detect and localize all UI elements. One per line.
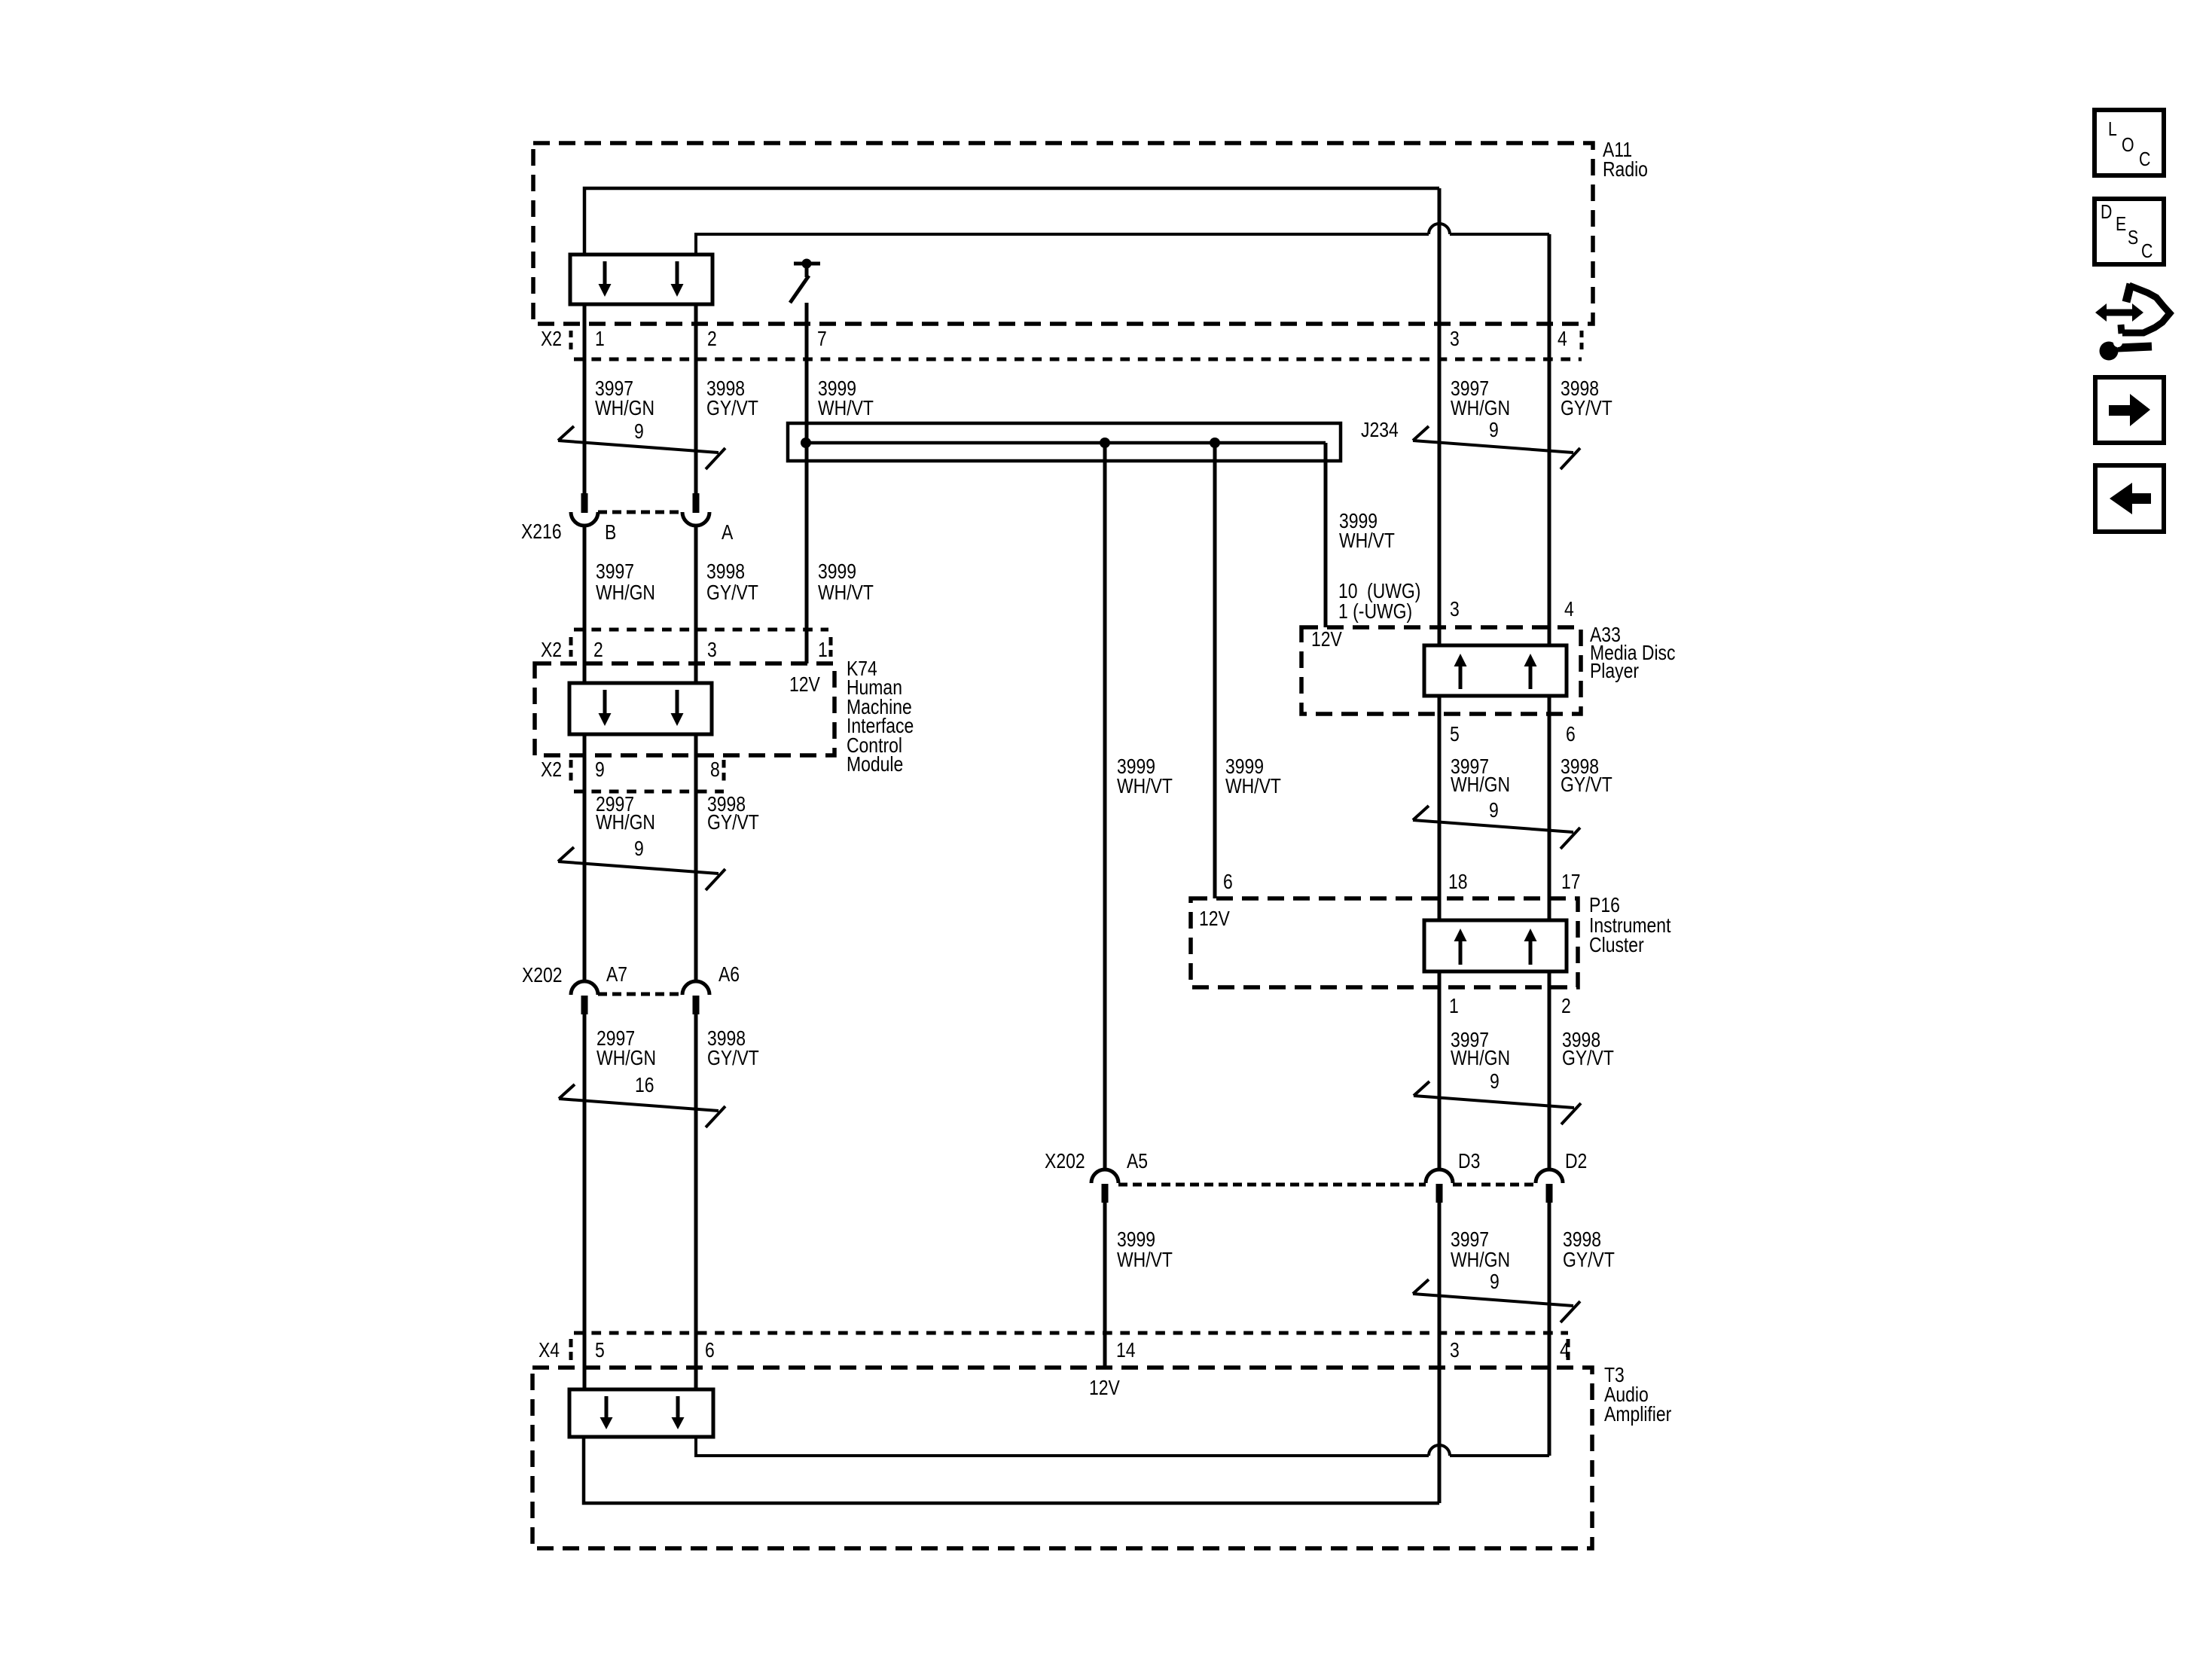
svg-text:WH/VT: WH/VT: [1117, 1249, 1173, 1272]
wire W3: D3 to T3 interior: [1438, 1203, 1442, 1503]
X202 D3 arc: [1426, 1170, 1453, 1183]
svg-text:WH/GN: WH/GN: [1451, 1249, 1510, 1272]
svg-text:A7: A7: [606, 963, 627, 987]
svg-text:WH/GN: WH/GN: [596, 811, 655, 834]
P16 connector arrow left: [1459, 941, 1463, 965]
J234 bus line: [806, 441, 1326, 445]
svg-text:3999: 3999: [818, 560, 856, 584]
P16 connector box: [1424, 920, 1567, 971]
P16 connector arrow right: [1529, 941, 1533, 965]
wire W4: radio to A33: [1548, 234, 1551, 646]
svg-text:GY/VT: GY/VT: [1563, 1249, 1615, 1272]
svg-text:Player: Player: [1590, 660, 1639, 683]
twisted pair symbol 1 (radio-X216): [558, 426, 725, 469]
T3 interior wire W2 return left part: [696, 1437, 1429, 1456]
X216 B arc: [571, 512, 598, 526]
svg-text:1: 1: [1449, 995, 1459, 1018]
svg-text:9: 9: [634, 420, 644, 444]
X202 A7 pin bar: [581, 996, 588, 1014]
svg-text:J234: J234: [1361, 419, 1399, 442]
svg-text:X2: X2: [541, 639, 562, 662]
hop of W2 return over W3: [1429, 1445, 1450, 1456]
svg-text:C: C: [2139, 148, 2150, 171]
svg-text:E: E: [2116, 213, 2126, 236]
K74 connector arrow right: [676, 690, 679, 714]
A11 Radio dashed box: [533, 143, 1593, 324]
svg-text:WH/GN: WH/GN: [1451, 397, 1510, 420]
svg-text:GY/VT: GY/VT: [706, 397, 758, 420]
svg-text:X216: X216: [521, 520, 562, 544]
svg-text:WH/GN: WH/GN: [1451, 1047, 1510, 1070]
svg-text:S: S: [2128, 227, 2138, 249]
svg-text:2: 2: [1561, 995, 1571, 1018]
wire W4: D2 to T3 interior: [1548, 1203, 1551, 1456]
svg-text:Cluster: Cluster: [1589, 934, 1644, 957]
wire W3: A33 to P16: [1438, 696, 1442, 920]
schematic navigation icon (route arrow + wrench): [2121, 284, 2170, 334]
K74 bottom pin row left separator: [569, 760, 573, 784]
junction dot WP6: [1210, 438, 1220, 448]
svg-text:1 (-UWG): 1 (-UWG): [1338, 600, 1412, 624]
svg-text:5: 5: [1450, 723, 1460, 746]
K74 top pin row dotted line: [574, 628, 828, 632]
svg-text:Module: Module: [847, 753, 903, 776]
A33 connector arrow left: [1459, 666, 1463, 689]
X202 left dashed link: [598, 993, 682, 996]
X202 A5 arc: [1091, 1170, 1118, 1183]
svg-text:12V: 12V: [789, 673, 820, 697]
svg-text:X202: X202: [1045, 1150, 1085, 1173]
svg-text:14: 14: [1116, 1339, 1136, 1362]
svg-text:GY/VT: GY/VT: [706, 581, 758, 605]
A33 connector arrow right: [1529, 666, 1533, 689]
T3 connector arrow right: [676, 1396, 680, 1418]
svg-text:16: 16: [635, 1074, 654, 1097]
svg-text:L: L: [2108, 118, 2117, 141]
svg-text:2: 2: [593, 639, 603, 662]
J234 splice pack box: [788, 423, 1341, 461]
svg-text:4: 4: [1560, 1339, 1570, 1362]
wire W1: X216 to K74: [583, 526, 587, 685]
X202 A6 arc: [682, 981, 709, 995]
svg-text:Radio: Radio: [1603, 158, 1648, 181]
X202 A5 pin bar: [1102, 1184, 1109, 1203]
svg-text:3: 3: [707, 639, 717, 662]
svg-text:3997: 3997: [596, 560, 634, 584]
twisted pair symbol 7 (X202-T3 right): [1413, 1279, 1580, 1322]
svg-text:WH/VT: WH/VT: [1225, 775, 1281, 798]
P16 dashed box: [1191, 898, 1578, 987]
radio pin row right separator: [1580, 331, 1584, 352]
K74 connector box: [569, 683, 712, 734]
svg-text:WH/VT: WH/VT: [818, 581, 874, 605]
X216 A arc: [682, 512, 709, 526]
svg-text:WH/GN: WH/GN: [596, 581, 655, 605]
T3 connector arrow left: [605, 1396, 609, 1418]
twisted pair symbol 6 (P16-X202): [1414, 1081, 1581, 1124]
wire W2 top loop left part: [696, 234, 1429, 255]
svg-text:Amplifier: Amplifier: [1604, 1403, 1672, 1426]
svg-text:WH/GN: WH/GN: [595, 397, 654, 420]
wrench: [2100, 342, 2119, 361]
wire 3999 from switch down to K74: [805, 303, 809, 663]
svg-text:6: 6: [1566, 723, 1576, 746]
svg-text:D: D: [2101, 201, 2112, 224]
wire W4: A33 to P16: [1548, 696, 1551, 920]
LOC icon box: [2095, 110, 2164, 175]
X4 pin row left separator: [569, 1339, 573, 1360]
svg-text:O: O: [2122, 134, 2134, 157]
wire W3: radio to A33: [1438, 188, 1442, 646]
K74 bottom pin row dotted line: [574, 790, 724, 794]
back arrow icon box: [2095, 465, 2164, 532]
svg-text:1: 1: [595, 328, 605, 351]
K74 bottom pin row right separator: [722, 760, 726, 784]
svg-text:4: 4: [1558, 328, 1567, 351]
switch in radio (pin 7): [794, 262, 820, 266]
radio connector arrow right: [676, 261, 679, 285]
wire W2 top loop right part: [1450, 233, 1549, 236]
T3 connector box: [569, 1389, 713, 1437]
wire WA5: X202 to T3 pin 14: [1103, 1203, 1107, 1368]
svg-text:1: 1: [818, 639, 828, 662]
svg-text:WH/VT: WH/VT: [1339, 529, 1395, 553]
forward arrow icon box: [2095, 377, 2164, 443]
svg-text:12V: 12V: [1199, 907, 1230, 931]
svg-text:D3: D3: [1458, 1150, 1480, 1173]
K74 top pin row left separator: [569, 637, 573, 657]
wire W2: radio to X216 A: [694, 304, 698, 494]
svg-text:3: 3: [1450, 598, 1460, 621]
X202 A6 pin bar: [693, 996, 700, 1014]
svg-text:WH/GN: WH/GN: [596, 1047, 656, 1070]
svg-text:X202: X202: [522, 964, 563, 987]
T3 interior wire W1 return: [584, 1437, 1439, 1503]
K74 top pin row right separator: [829, 637, 833, 657]
svg-text:2: 2: [707, 328, 717, 351]
svg-text:D2: D2: [1565, 1150, 1587, 1173]
svg-text:X2: X2: [541, 328, 562, 351]
svg-text:GY/VT: GY/VT: [1561, 773, 1612, 797]
svg-text:4: 4: [1564, 598, 1574, 621]
forward arrow: [2109, 405, 2131, 416]
svg-text:7: 7: [817, 328, 827, 351]
X202 right dashed link A5-D3: [1118, 1183, 1426, 1187]
svg-text:GY/VT: GY/VT: [707, 811, 759, 834]
nav double arrow: [2105, 310, 2134, 316]
twisted pair symbol 2 (K74-X202): [558, 847, 725, 890]
X202 A7 arc: [571, 981, 598, 995]
radio connector arrow left: [603, 261, 607, 285]
svg-text:A5: A5: [1127, 1150, 1148, 1173]
A33 dashed box: [1301, 627, 1581, 714]
svg-text:17: 17: [1561, 871, 1581, 894]
X4 pin row right separator: [1567, 1339, 1570, 1360]
X216 dashed link: [598, 511, 682, 514]
svg-text:A: A: [722, 521, 734, 544]
wire WA5: J234 to X202 A5: [1103, 443, 1107, 1171]
radio X2 pin row bottom dotted line: [574, 358, 1582, 361]
X216 A pin bar: [693, 493, 700, 513]
wire W3: P16 to D3: [1438, 971, 1442, 1171]
wire W1: radio to X216 B: [583, 304, 587, 494]
hop of W2 over W3: [1429, 224, 1450, 234]
svg-text:9: 9: [634, 837, 644, 861]
J234 right leg to A33: [1324, 443, 1328, 627]
svg-text:3: 3: [1450, 328, 1460, 351]
svg-text:9: 9: [1489, 799, 1499, 822]
svg-text:12V: 12V: [1089, 1377, 1120, 1400]
svg-text:12V: 12V: [1311, 628, 1342, 651]
junction dot W7: [801, 438, 811, 448]
svg-text:18: 18: [1448, 871, 1468, 894]
DESC icon box: [2095, 199, 2164, 264]
svg-text:X4: X4: [539, 1339, 560, 1362]
K74 connector arrow left: [603, 690, 607, 714]
svg-text:9: 9: [1490, 1070, 1500, 1093]
K74 dashed box: [535, 663, 834, 755]
svg-text:9: 9: [595, 758, 605, 782]
wire W2: X216 to K74: [694, 526, 698, 685]
X202 right dashed link D3-D2: [1453, 1183, 1536, 1187]
twisted pair symbol 5 (A33-P16): [1413, 806, 1580, 849]
twisted pair symbol 4 (radio-A33): [1413, 426, 1580, 469]
twisted pair symbol 3 (X202-T3): [559, 1084, 725, 1127]
svg-text:B: B: [605, 521, 616, 544]
X202 D2 arc: [1536, 1170, 1563, 1183]
junction dot WA5: [1100, 438, 1110, 448]
svg-text:X2: X2: [541, 758, 562, 782]
X216 B pin bar: [581, 493, 588, 513]
A33 connector box: [1424, 645, 1567, 696]
X202 D2 pin bar: [1546, 1184, 1553, 1203]
back arrow: [2131, 493, 2151, 504]
wire W2: X202 to T3: [694, 1014, 698, 1389]
svg-text:WH/GN: WH/GN: [1451, 773, 1510, 797]
radio connector box: [570, 255, 712, 304]
svg-text:WH/VT: WH/VT: [818, 397, 874, 420]
svg-text:8: 8: [710, 758, 720, 782]
T3 X4 pin row dotted line: [574, 1331, 1568, 1335]
svg-text:5: 5: [595, 1339, 605, 1362]
svg-text:6: 6: [705, 1339, 715, 1362]
wire W1 top loop: [584, 188, 1439, 255]
T3 dashed box: [532, 1368, 1592, 1548]
wire W1: K74 to X202 A7: [583, 734, 587, 983]
T3 interior wire W2 return right part: [1450, 1454, 1549, 1457]
svg-text:3: 3: [1450, 1339, 1460, 1362]
svg-text:9: 9: [1490, 1270, 1500, 1294]
svg-text:6: 6: [1223, 871, 1233, 894]
wire W4: P16 to D2: [1548, 971, 1551, 1171]
wire W2: K74 to X202 A6: [694, 734, 698, 983]
wire W1: X202 to T3: [583, 1014, 587, 1389]
svg-text:WH/VT: WH/VT: [1117, 775, 1173, 798]
svg-text:9: 9: [1489, 419, 1499, 442]
svg-text:GY/VT: GY/VT: [707, 1047, 759, 1070]
svg-text:3998: 3998: [706, 560, 745, 584]
X202 D3 pin bar: [1436, 1184, 1443, 1203]
svg-text:A6: A6: [719, 963, 740, 987]
svg-text:GY/VT: GY/VT: [1562, 1047, 1614, 1070]
svg-text:C: C: [2141, 240, 2153, 263]
radio pin row left separator: [569, 331, 573, 349]
svg-text:GY/VT: GY/VT: [1561, 397, 1612, 420]
wire WP6: J234 to P16 pin 6: [1213, 443, 1217, 898]
